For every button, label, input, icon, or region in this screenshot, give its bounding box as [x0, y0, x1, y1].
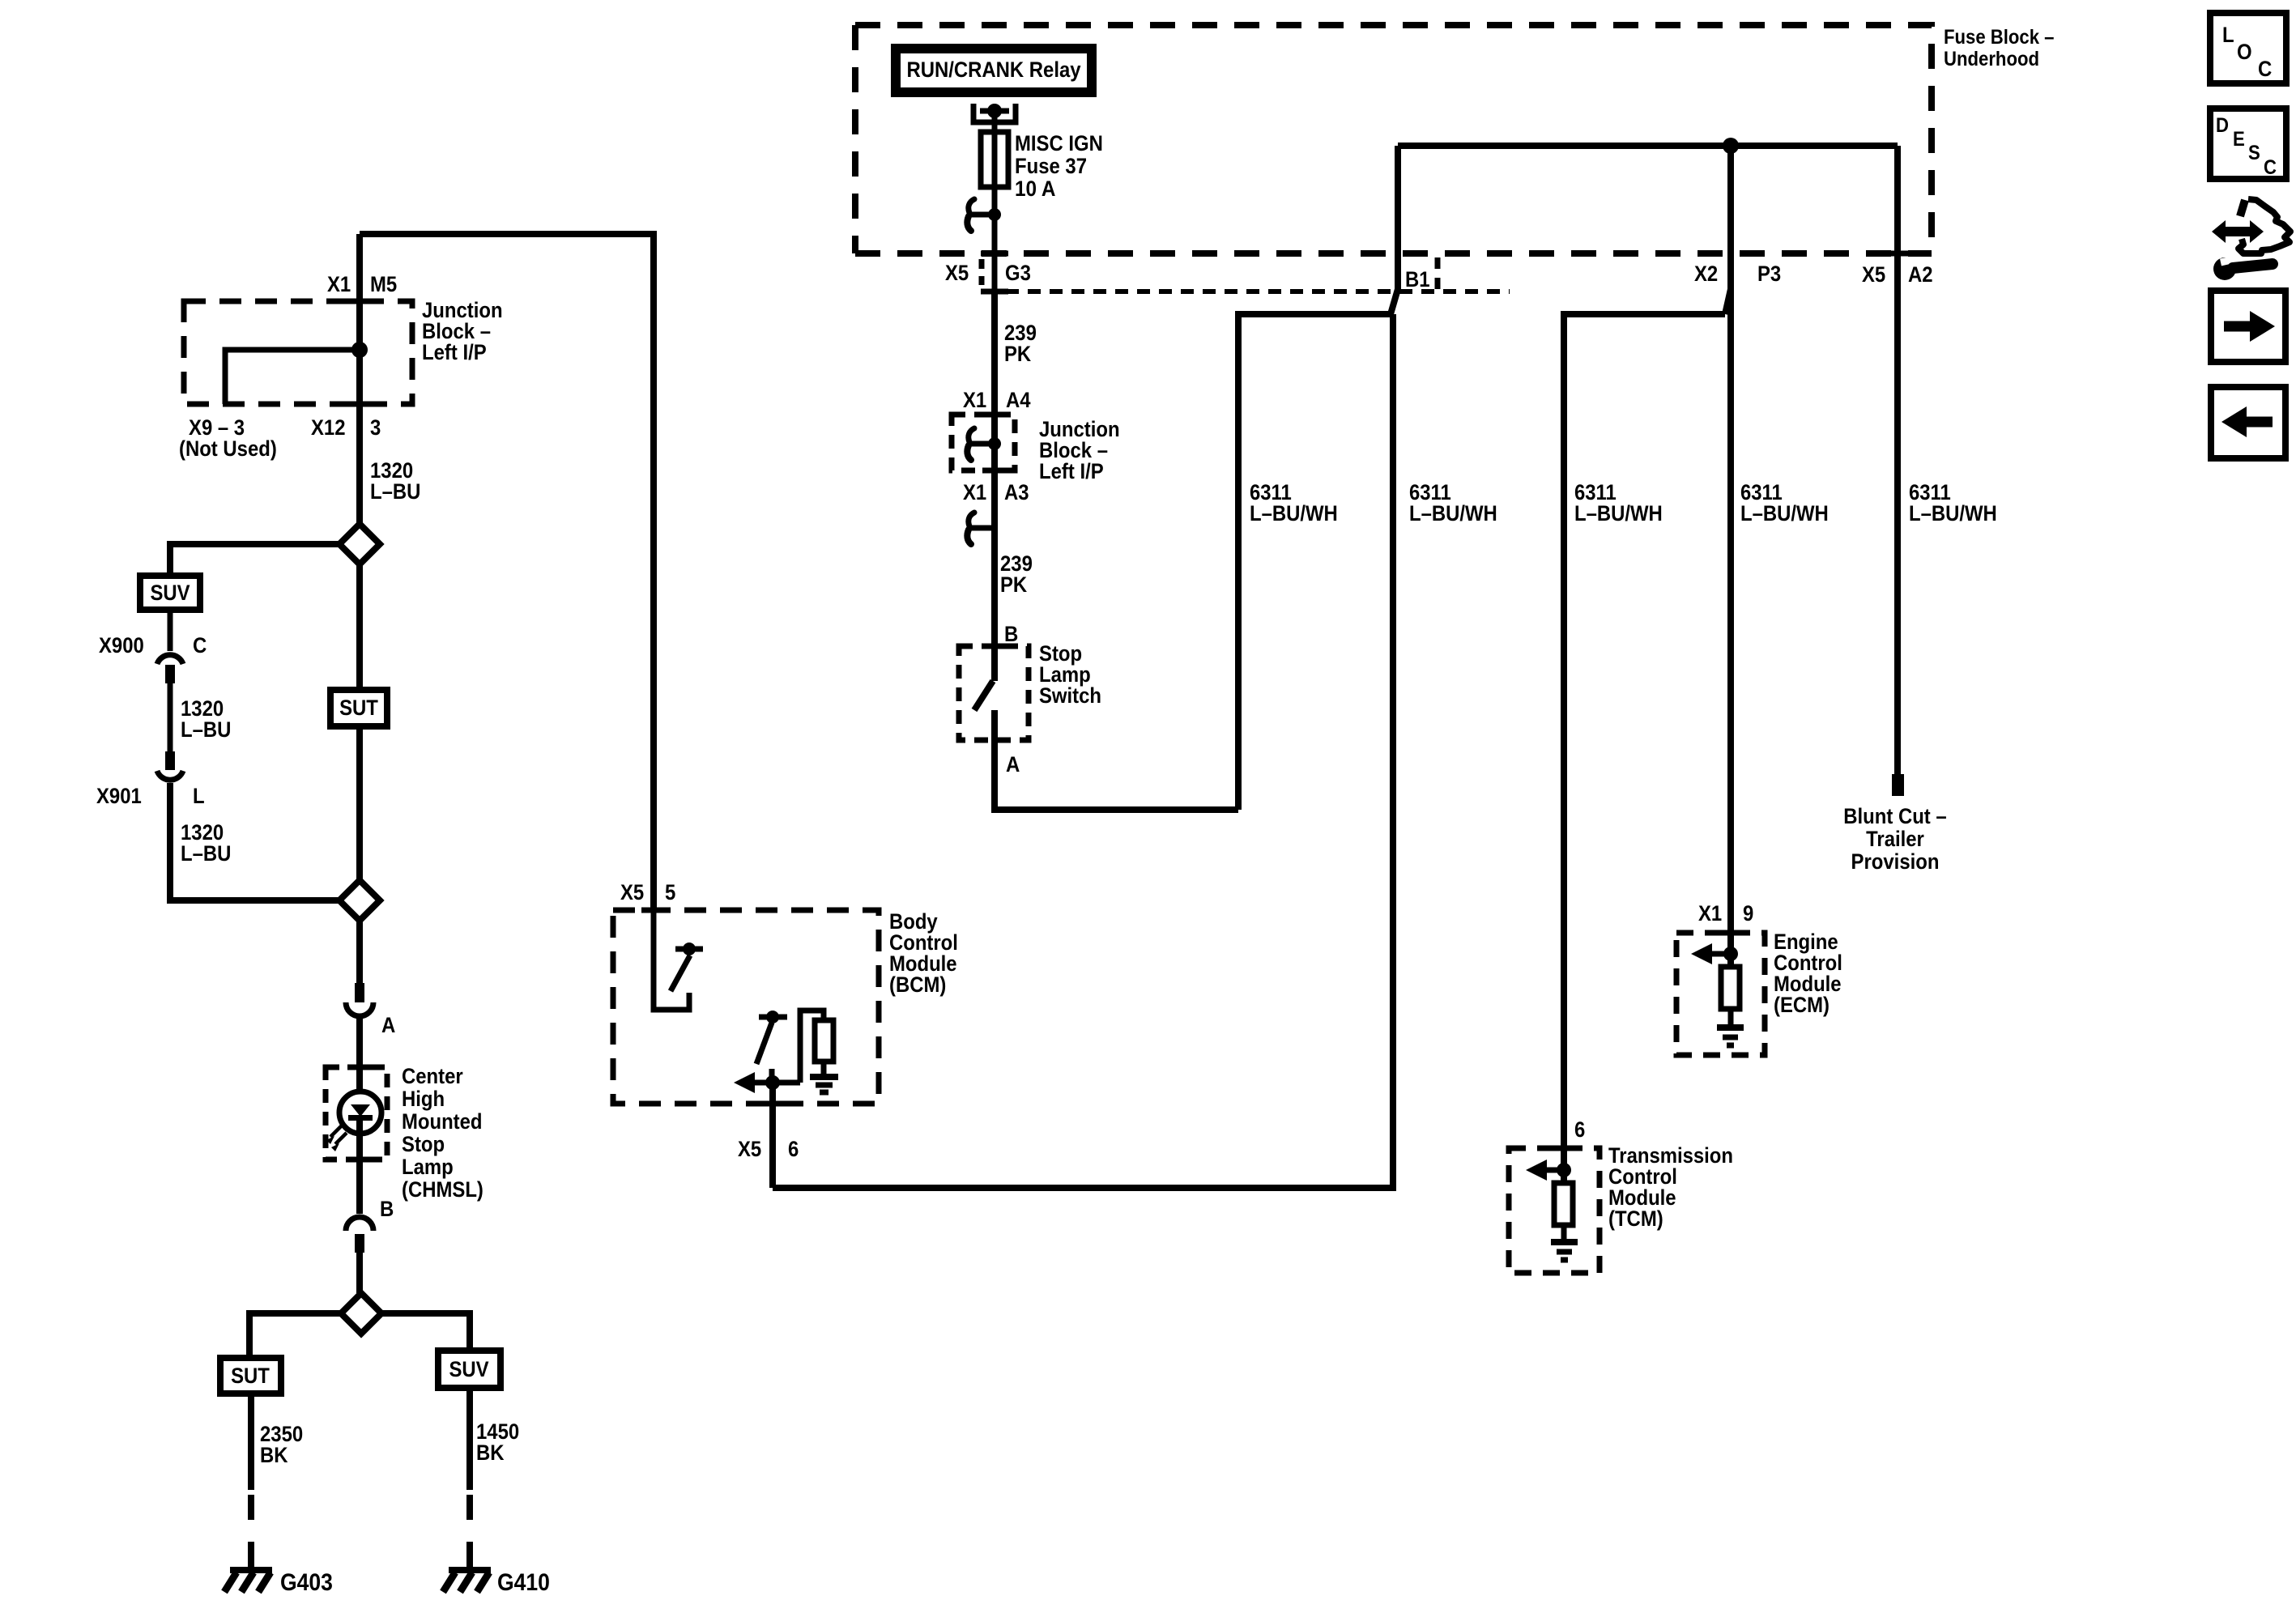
tick at CHMSL bottom crossing: [347, 1157, 372, 1163]
lamp E: CHMSL dashed box: [326, 1067, 387, 1160]
svg-text:SUT: SUT: [231, 1364, 270, 1388]
svg-text:Trailer: Trailer: [1866, 827, 1924, 851]
switch 2 lower stub: [769, 1069, 775, 1083]
svg-text:X1: X1: [1698, 901, 1722, 926]
svg-text:Lamp: Lamp: [402, 1155, 454, 1179]
internal arrow in ECM: [1710, 951, 1731, 957]
svg-text:High: High: [402, 1087, 445, 1111]
wire diamond3 right to SUV: [381, 1313, 470, 1351]
svg-text:M5: M5: [370, 272, 397, 296]
svg-text:Switch: Switch: [1039, 683, 1101, 708]
wire slant into pin B1: [1391, 146, 1398, 314]
svg-text:(TCM): (TCM): [1608, 1206, 1663, 1231]
ground symbol in TCM: [1551, 1239, 1578, 1245]
switch 2 contact bar and dot: [759, 1015, 787, 1020]
icon LOC box: [2210, 13, 2286, 83]
tick X1|M5 crossing: [347, 299, 373, 304]
svg-text:9: 9: [1743, 901, 1753, 926]
svg-text:Fuse 37: Fuse 37: [1015, 154, 1087, 178]
svg-text:L–BU: L–BU: [370, 479, 420, 504]
wire diamond3 left to SUT: [249, 1313, 341, 1358]
tick X12|3 crossing: [347, 402, 373, 407]
SECTION: 239 PK net and stop lamp switch: [952, 291, 1238, 810]
icon back arrow box: [2211, 387, 2285, 458]
wire top bus inside fuse block row: [1398, 143, 1898, 149]
svg-text:E: E: [2233, 128, 2245, 151]
SECTION: fuse block underhood: [855, 25, 2055, 298]
svg-text:L–BU/WH: L–BU/WH: [1740, 501, 1829, 526]
svg-text:C: C: [2258, 57, 2272, 81]
svg-text:(BCM): (BCM): [889, 972, 946, 997]
svg-text:B: B: [1004, 622, 1018, 646]
svg-text:Blunt Cut –: Blunt Cut –: [1843, 804, 1946, 828]
icon forward arrow box: [2211, 291, 2285, 362]
wire X5|A2 drop to blunt cut: [1894, 146, 1901, 774]
svg-text:Left I/P: Left I/P: [1039, 459, 1104, 483]
svg-text:MISC IGN: MISC IGN: [1015, 131, 1103, 155]
junction block - left I/P dashed box: [184, 301, 412, 404]
tick at CHMSL top crossing: [347, 1065, 372, 1070]
switch contact bar and dot (input monitor): [675, 947, 703, 952]
node dot at X2 branch: [1723, 138, 1739, 154]
wire SUT to diamond 2: [356, 726, 363, 880]
pin marker X5|G3: [979, 259, 985, 285]
wire SUT to ground solid then dashed: [248, 1394, 254, 1490]
wire 239 PK from G3 to junction block: [991, 291, 998, 415]
switch blade: [974, 681, 993, 710]
fuse F37 MISC IGN 10A: [981, 132, 1008, 187]
splice diamond 3: [341, 1293, 381, 1334]
connector pin B (female arc + male pin): [346, 1217, 373, 1231]
svg-text:X1: X1: [963, 480, 986, 504]
node: relay output dot with tick: [980, 109, 1009, 114]
wire resistor to ground in ECM: [1728, 1009, 1734, 1025]
wire X2|P3 continues to ECM: [1727, 289, 1734, 933]
wire resistor to ground: [821, 1062, 827, 1075]
svg-text:P3: P3: [1757, 262, 1781, 286]
ground symbol in BCM: [810, 1074, 838, 1080]
svg-text:X5: X5: [1862, 262, 1885, 287]
resistor R in ECM: [1721, 967, 1740, 1009]
svg-text:B1: B1: [1405, 267, 1430, 291]
svg-text:BK: BK: [476, 1440, 505, 1465]
resistor R in BCM: [815, 1020, 833, 1062]
svg-text:X1: X1: [963, 388, 986, 412]
wire into TCM: [1561, 1148, 1567, 1183]
svg-text:Fuse Block –: Fuse Block –: [1944, 26, 2055, 49]
splice diamond 2: [339, 880, 380, 921]
svg-text:3: 3: [370, 415, 381, 440]
splice diamond top: [339, 524, 380, 564]
SECTION: relay and fuse: [896, 49, 1103, 291]
wire CHMSL to connector B: [356, 1160, 363, 1214]
svg-text:X1: X1: [327, 272, 351, 296]
svg-text:Provision: Provision: [1851, 849, 1940, 874]
wire X5|6 down: [769, 1083, 776, 1188]
wire connector B to diamond 3: [356, 1253, 363, 1293]
wire diamond2 to connector A: [356, 921, 363, 983]
wire into ECM: [1727, 933, 1734, 967]
module U: engine control module dashed box: [1676, 933, 1765, 1055]
wire 1320 L-BU top run from junction block to BCM: [360, 234, 654, 910]
svg-text:BK: BK: [260, 1443, 288, 1467]
svg-text:D: D: [2216, 114, 2229, 137]
SECTION: chmsl and grounds: [220, 1064, 550, 1596]
node dot in ECM: [1723, 947, 1738, 961]
blunt cut terminal: [1892, 774, 1904, 796]
wire X900 to X901: [168, 683, 173, 751]
tick at X5|6 crossing: [760, 1101, 785, 1107]
switch blade (input monitor): [671, 955, 690, 991]
svg-text:Stop: Stop: [402, 1132, 445, 1156]
internal pullup branch: [800, 1011, 824, 1083]
svg-text:A4: A4: [1006, 388, 1031, 412]
internal output line with arrow: [753, 1080, 800, 1086]
wire X2|P3 drop: [1725, 146, 1731, 314]
tick at X1|9 crossing: [1719, 930, 1743, 936]
light emission arrows: [330, 1126, 347, 1144]
SECTION: left 1320 net: [96, 234, 654, 1067]
box SUV (bottom): [438, 1351, 501, 1388]
svg-text:L: L: [2222, 23, 2234, 47]
switch 2 blade: [756, 1023, 772, 1064]
box SUV (top): [140, 576, 200, 610]
node junction dot at X5|6: [765, 1075, 780, 1090]
wire main left vertical: [356, 234, 363, 524]
svg-text:L: L: [193, 784, 205, 808]
svg-text:(Not Used): (Not Used): [179, 436, 277, 461]
box SUT (middle): [330, 690, 387, 726]
module U: transmission control module dashed box: [1509, 1148, 1600, 1273]
svg-text:10 A: 10 A: [1015, 177, 1056, 201]
svg-text:SUV: SUV: [449, 1357, 488, 1381]
resistor R in TCM: [1554, 1183, 1573, 1225]
fuse block - underhood dashed outline: [855, 25, 1932, 253]
wire fuse down to G3: [992, 187, 998, 291]
connector X900 pin C (female arc + male pin): [157, 655, 183, 664]
svg-text:L–BU: L–BU: [181, 841, 231, 866]
switch lower stub: [991, 710, 998, 740]
wire 239 PK to stop lamp switch with pigtail: [991, 470, 998, 646]
wire stub to X9-3 not used: [225, 350, 360, 404]
svg-text:X12: X12: [311, 415, 346, 440]
SECTION: ECM TCM blunt cut: [1509, 901, 1842, 1273]
svg-text:5: 5: [665, 880, 675, 904]
svg-text:6: 6: [1574, 1117, 1585, 1142]
junction block - left I/P (2) dashed box: [952, 415, 1015, 470]
ground G410: [449, 1567, 491, 1573]
svg-text:L–BU/WH: L–BU/WH: [1409, 501, 1497, 526]
wire B1 drop to BCM run: [773, 314, 1393, 1188]
wire through junction block: [991, 415, 998, 470]
svg-text:X5: X5: [945, 261, 969, 285]
svg-text:(CHMSL): (CHMSL): [402, 1177, 483, 1202]
svg-text:Center: Center: [402, 1064, 463, 1088]
SECTION: BCM: [613, 880, 958, 1188]
tick at A2 crossing: [1885, 251, 1910, 257]
pin marker B1: [1435, 257, 1441, 298]
wire input leg inside BCM: [654, 910, 689, 1010]
svg-text:PK: PK: [1000, 572, 1028, 597]
svg-text:A: A: [381, 1013, 395, 1037]
svg-text:X900: X900: [99, 633, 144, 657]
wire from switch A to 6311 riser: [995, 740, 1238, 810]
svg-text:X901: X901: [96, 784, 142, 808]
svg-text:X5: X5: [620, 880, 644, 904]
wire 6311 riser from switch A up to B1 branch: [1238, 314, 1391, 810]
tick at A3 crossing: [982, 468, 1007, 474]
wire to TCM riser: [1564, 314, 1725, 1148]
svg-text:X5: X5: [738, 1137, 761, 1161]
tick at B crossing: [982, 644, 1007, 649]
svg-text:SUT: SUT: [339, 696, 378, 720]
svg-text:6: 6: [788, 1137, 799, 1161]
svg-text:B: B: [380, 1197, 394, 1221]
svg-text:X2: X2: [1694, 262, 1718, 286]
wire diamond to SUV branch: [170, 544, 339, 576]
wire SUV to X900: [168, 610, 173, 651]
svg-text:C: C: [193, 633, 207, 657]
svg-text:G403: G403: [280, 1569, 333, 1596]
svg-text:L–BU/WH: L–BU/WH: [1909, 501, 1997, 526]
connector pin A (male pin + female arc): [355, 983, 364, 1002]
node dot in TCM: [1557, 1163, 1571, 1177]
svg-text:A2: A2: [1908, 262, 1933, 287]
tick at X5|5 crossing: [641, 908, 666, 913]
ground G403: [230, 1567, 272, 1573]
tick at A4 crossing: [982, 412, 1007, 418]
icon DESC box: [2210, 109, 2286, 179]
svg-text:O: O: [2237, 40, 2252, 64]
svg-text:Underhood: Underhood: [1944, 48, 2039, 70]
svg-text:C: C: [2264, 156, 2277, 179]
icon hand with double arrow and wrench: [2212, 199, 2290, 280]
svg-text:L–BU: L–BU: [181, 717, 231, 742]
relay socket cavity symbol: [973, 104, 1016, 122]
svg-text:SUV: SUV: [150, 581, 190, 605]
svg-text:L–BU/WH: L–BU/WH: [1574, 501, 1663, 526]
lamp circle with LED symbol: [356, 1067, 363, 1106]
svg-text:G3: G3: [1005, 261, 1031, 285]
wire SUV to ground solid then dashed: [466, 1388, 473, 1490]
wire relay to fuse: [992, 111, 998, 132]
svg-text:Left I/P: Left I/P: [422, 340, 487, 364]
svg-text:Mounted: Mounted: [402, 1109, 483, 1134]
connector line X5 (fine dashed): [984, 289, 1510, 294]
svg-text:L–BU/WH: L–BU/WH: [1250, 501, 1338, 526]
wire connector A to CHMSL: [356, 1015, 363, 1067]
wire X901 down and to diamond 2: [170, 783, 339, 900]
relay K: RUN/CRANK Relay title box: [896, 49, 1092, 92]
box SUT (bottom): [220, 1358, 281, 1394]
svg-text:A3: A3: [1004, 480, 1029, 504]
tick at G3 connector line: [981, 289, 1008, 295]
tap node with pigtail at fuse output: [969, 212, 995, 218]
svg-text:(ECM): (ECM): [1774, 993, 1830, 1017]
tick at G3 crossing of fuse block edge: [981, 251, 1008, 257]
node dot with pigtail inside junction block: [969, 441, 995, 447]
svg-text:S: S: [2248, 142, 2260, 164]
node: junction dot inside block: [351, 342, 368, 358]
SECTION: 6311 net: [773, 138, 1997, 1188]
connector X901 pin L (male pin + female arc): [165, 751, 175, 770]
svg-text:A: A: [1006, 752, 1020, 777]
svg-text:PK: PK: [1004, 342, 1032, 366]
svg-text:G410: G410: [497, 1569, 550, 1596]
wire resistor to ground in TCM: [1561, 1225, 1567, 1240]
switch S: stop lamp switch dashed box: [959, 646, 1029, 740]
switch contact wire: [991, 646, 998, 681]
internal arrow in TCM: [1544, 1168, 1564, 1173]
ground symbol in ECM: [1717, 1024, 1744, 1031]
module U: body control module dashed box: [613, 910, 879, 1104]
tick at TCM pin 6 crossing: [1552, 1146, 1576, 1151]
svg-text:RUN/CRANK Relay: RUN/CRANK Relay: [906, 57, 1080, 82]
SECTION: right side icons: [2210, 13, 2290, 458]
wire diamond1 to SUT: [356, 564, 363, 690]
